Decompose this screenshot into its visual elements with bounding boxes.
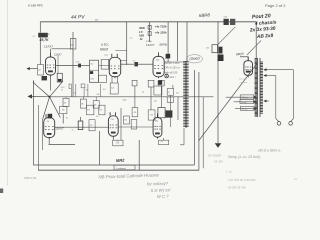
svg-text:25u: 25u <box>154 101 157 103</box>
svg-text:Smxy, (L Lo, 25 dxl!),: Smxy, (L Lo, 25 dxl!), <box>228 155 261 159</box>
svg-text:2.2k: 2.2k <box>111 88 114 90</box>
svg-text:4k7: 4k7 <box>176 93 179 95</box>
svg-text:MR2: MR2 <box>116 158 125 163</box>
svg-text:1.5: 1.5 <box>139 31 143 34</box>
svg-text:for xxttxxy?: for xxttxxy? <box>147 181 169 187</box>
svg-text:xxx: xxx <box>161 141 164 143</box>
svg-text:44 PV: 44 PV <box>71 14 85 20</box>
svg-text:6AU6: 6AU6 <box>100 48 108 52</box>
svg-text:+4x 715h: +4x 715h <box>155 25 167 29</box>
svg-text:600k: 600k <box>139 27 145 30</box>
svg-text:x tx 4 tx xx x-xx xxx: x tx 4 tx xx x-xx xxx <box>227 178 256 182</box>
svg-text:50: 50 <box>142 92 144 94</box>
svg-text:x. xx: x. xx <box>225 170 232 174</box>
svg-text:47k: 47k <box>64 102 67 104</box>
svg-text:220: 220 <box>90 125 93 127</box>
svg-text:6BR8: 6BR8 <box>199 12 211 18</box>
svg-text:33k: 33k <box>124 120 127 122</box>
svg-text:(2x): (2x) <box>105 54 109 56</box>
svg-text:Landquart: Landquart <box>117 167 127 170</box>
svg-text:+400V: +400V <box>44 34 51 36</box>
svg-text:Lxx xxxx: Lxx xxxx <box>239 79 248 81</box>
svg-text:6.8: 6.8 <box>103 89 106 91</box>
svg-text:AB 2x8: AB 2x8 <box>256 33 274 40</box>
svg-text:47k: 47k <box>87 110 90 112</box>
svg-text:6BQ5: 6BQ5 <box>236 52 244 56</box>
svg-text:24x: 24x <box>155 121 158 123</box>
svg-text:68k: 68k <box>95 20 98 22</box>
svg-text:(6BR8): (6BR8) <box>159 43 167 47</box>
svg-text:PRM A 4M: PRM A 4M <box>24 176 36 180</box>
svg-text:10k: 10k <box>206 48 209 50</box>
svg-text:(Goe!): (Goe!) <box>189 56 199 61</box>
svg-text:10n: 10n <box>73 93 76 95</box>
svg-text:xx xxx tx xxx: xx xxx tx xxx <box>227 186 246 190</box>
svg-text:12AX7: 12AX7 <box>44 45 53 49</box>
svg-text:4.7: 4.7 <box>168 92 170 94</box>
svg-text:S D W) xxl: S D W) xxl <box>150 187 171 193</box>
svg-text:A3B: A3B <box>138 35 144 38</box>
svg-text:10k: 10k <box>62 110 65 112</box>
svg-text:47k: 47k <box>134 112 137 114</box>
svg-text:3x15m x 25m: 3x15m x 25m <box>165 62 180 65</box>
svg-text:OO: OO <box>111 119 115 121</box>
svg-text:150 ohm !: 150 ohm ! <box>165 76 176 79</box>
svg-text:+4x 120h: +4x 120h <box>155 31 167 35</box>
svg-text:K-186 PP3: K-186 PP3 <box>28 4 43 8</box>
svg-text:2x xxxxx: 2x xxxxx <box>207 154 221 158</box>
svg-text:Page 2 of 2: Page 2 of 2 <box>265 3 286 8</box>
svg-text:12AT7: 12AT7 <box>146 43 155 47</box>
svg-text:100k: 100k <box>123 100 127 102</box>
svg-text:4Ω tap: 4Ω tap <box>242 108 247 111</box>
svg-text:6.3CL: 6.3CL <box>101 43 109 47</box>
svg-text:C1: C1 <box>33 36 35 38</box>
svg-text:W C ?: W C ? <box>157 194 169 199</box>
svg-text:xx xxx: xx xxx <box>213 160 223 164</box>
svg-text:470k: 470k <box>90 79 94 81</box>
svg-text:xxxx xx: xxxx xx <box>240 82 249 84</box>
svg-text:220k: 220k <box>224 17 228 19</box>
svg-text:xx: xx <box>293 177 298 181</box>
svg-text:8Ω tap: 8Ω tap <box>241 101 246 104</box>
svg-text:OPx A-120 xx: OPx A-120 xx <box>165 67 181 70</box>
svg-text:0x8: 0x8 <box>116 141 119 143</box>
svg-text:470: 470 <box>116 143 119 145</box>
svg-text:22k: 22k <box>94 104 97 106</box>
svg-text:1k: 1k <box>72 130 74 132</box>
svg-text:xtri d u Skin u,: xtri d u Skin u, <box>257 149 281 153</box>
svg-text:with eff.150: with eff.150 <box>165 71 178 74</box>
svg-text:22k: 22k <box>97 94 100 96</box>
svg-text:5k2: 5k2 <box>91 64 94 66</box>
svg-text:8x: 8x <box>66 118 68 120</box>
svg-text:0.05: 0.05 <box>76 62 80 64</box>
svg-text:16Ω tap: 16Ω tap <box>241 96 247 99</box>
svg-text:47: 47 <box>61 90 63 92</box>
